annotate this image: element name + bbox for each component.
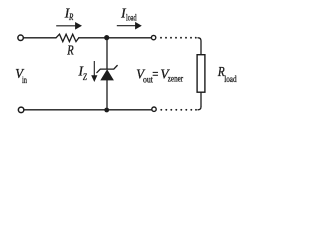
resistor Rload [197, 55, 205, 92]
node B [104, 108, 109, 113]
zener diode bottom lead [106, 80, 108, 110]
current arrow I_R [56, 25, 76, 27]
current arrow I_Z [93, 61, 95, 76]
zener diode cathode bar [97, 66, 117, 73]
wire corner top right [198, 38, 201, 55]
wire dotted top [160, 37, 197, 39]
terminal Vin+ [18, 35, 24, 41]
wire bottom [25, 109, 152, 111]
svg-text:R: R [68, 12, 73, 22]
resistor R [56, 34, 79, 41]
svg-text:load: load [224, 75, 237, 85]
svg-text:=: = [152, 67, 158, 82]
zener diode anode triangle [100, 69, 114, 80]
wire corner bottom right [198, 107, 201, 110]
terminal out+ [151, 35, 155, 39]
wire below Rload [200, 92, 202, 106]
wire dotted bottom [160, 109, 197, 111]
svg-text:in: in [22, 75, 27, 85]
svg-text:R: R [66, 44, 73, 59]
svg-text:zener: zener [168, 75, 184, 85]
wire [79, 37, 151, 39]
svg-text:load: load [126, 12, 137, 22]
terminal Vin- [18, 107, 24, 113]
zener diode top lead [106, 38, 108, 69]
current arrow I_load [117, 25, 136, 27]
node A [104, 35, 109, 40]
svg-text:Z: Z [83, 72, 88, 82]
wire [24, 37, 56, 39]
terminal out- [152, 107, 156, 111]
